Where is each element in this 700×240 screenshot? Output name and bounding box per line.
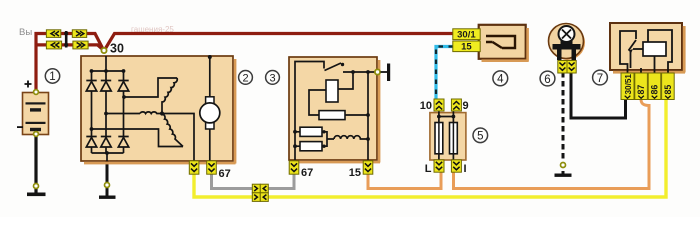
junction dots regulator	[293, 63, 370, 148]
resistor upper	[319, 111, 345, 120]
resistor left B	[300, 142, 322, 151]
WIRES-LAYER	[36, 34, 666, 198]
wire red second parallel run	[38, 45, 105, 51]
ignition switch 4	[453, 25, 529, 62]
svg-text:9: 9	[463, 100, 469, 112]
svg-text:86: 86	[650, 85, 660, 95]
node circled 1	[45, 69, 59, 83]
connector block near battery	[46, 30, 88, 49]
wire coil top feed	[648, 30, 672, 73]
battery 1	[17, 81, 49, 137]
relay coil	[643, 42, 666, 56]
relay coil regulator	[326, 80, 338, 102]
connector regulator terminal 15	[363, 161, 373, 174]
wire blue ignition15-to-fuse10	[436, 47, 453, 101]
wire gray generator67-to-regulator67	[212, 171, 295, 189]
svg-text:L: L	[425, 163, 432, 175]
connector fuse bottom L	[434, 160, 444, 172]
svg-text:67: 67	[219, 168, 231, 180]
svg-text:3: 3	[269, 73, 275, 85]
svg-text:гашения-25: гашения-25	[131, 25, 174, 34]
wire orange regulator15-to-fuseL	[368, 168, 441, 189]
node regulator external terminal	[375, 69, 380, 74]
contact lever	[325, 63, 342, 71]
svg-text:15: 15	[461, 42, 472, 53]
svg-text:4: 4	[497, 74, 504, 86]
ground battery	[27, 193, 46, 197]
node circled 6	[540, 71, 555, 86]
GROUND-SYMBOLS	[27, 163, 572, 199]
wire black battery ground	[34, 133, 37, 193]
connector fuse top 10	[434, 99, 444, 111]
wire rotor feed	[209, 57, 211, 162]
svg-text:15: 15	[349, 167, 361, 179]
wire star-to-terminal	[162, 114, 194, 162]
connector pair on gray and yellow wires	[252, 184, 268, 201]
wire bottom bus	[92, 152, 124, 154]
wire riser terminal 15	[367, 72, 369, 160]
resistor left A	[300, 127, 322, 136]
wire fuse bus	[439, 111, 454, 123]
wire relay left path	[620, 31, 641, 73]
wire coil bottom feed	[654, 56, 656, 73]
wire phase tap middle	[106, 113, 140, 115]
stator coil upper	[162, 78, 177, 113]
wire fixed contact line	[343, 71, 376, 73]
connector strip relay	[621, 73, 674, 100]
connector generator terminal plus	[189, 161, 199, 174]
wire top bus	[92, 70, 124, 72]
ground generator	[99, 196, 116, 199]
wire lever pivot to bottom	[630, 52, 632, 68]
fuse block 5	[420, 99, 469, 175]
ground lamp	[555, 174, 572, 177]
diode bottom row	[92, 97, 124, 153]
charge control relay 7	[610, 23, 686, 100]
connector chevrons relay strip	[625, 96, 671, 99]
wire red node30-to-ignition	[105, 34, 455, 51]
connector fuse bottom I	[451, 160, 461, 172]
wire black generator ground	[106, 161, 109, 196]
svg-text:87: 87	[636, 85, 646, 95]
fuse F1	[435, 123, 443, 154]
node circled 7	[593, 70, 608, 85]
wire black-white lamp-to-ground	[562, 72, 565, 174]
inductor coil	[334, 136, 368, 139]
generator 2	[81, 55, 236, 164]
wire phase tap lower	[92, 129, 184, 147]
fuse wires	[439, 123, 454, 161]
node circled 2	[239, 71, 253, 85]
relay armature lever	[629, 40, 637, 51]
stator coil middle	[140, 112, 162, 114]
warning lamp 6	[549, 24, 586, 74]
label terminal 15	[453, 41, 480, 53]
wire phase tap upper	[124, 78, 178, 97]
wire red battery-to-bus	[36, 34, 104, 93]
node circled 4	[493, 71, 508, 86]
junction dots generator	[90, 55, 212, 155]
connector lamp pins	[558, 61, 567, 74]
wire coil arrow	[633, 48, 643, 50]
wire resistor right to riser	[345, 114, 368, 116]
wire orange fuseI-to-relay87	[454, 99, 650, 189]
svg-text:7: 7	[597, 73, 603, 85]
svg-text:5: 5	[477, 131, 483, 143]
svg-text:Вы: Вы	[19, 27, 32, 38]
svg-text:2: 2	[242, 73, 248, 85]
wire contact stub	[295, 62, 324, 161]
wire coil bottom loop	[309, 90, 326, 115]
voltage regulator 3	[289, 57, 390, 163]
connector regulator terminal 67	[289, 161, 299, 174]
node circled 5	[473, 128, 488, 143]
svg-text:6: 6	[544, 74, 550, 86]
svg-text:I: I	[464, 163, 467, 175]
svg-text:1: 1	[49, 71, 55, 83]
node circled 3	[266, 71, 280, 85]
fuse F2	[450, 123, 458, 154]
svg-text:30: 30	[110, 42, 124, 56]
diode top row	[92, 71, 124, 129]
rotor brushes and circle	[206, 97, 214, 104]
connector generator terminal 67	[207, 161, 217, 174]
connector fuse top 9	[451, 99, 461, 111]
bulb	[559, 26, 575, 42]
stator coil lower	[162, 114, 183, 147]
wire stacked resistors ends	[295, 132, 334, 146]
wire yellow generator-to-relay85 bottom run	[194, 100, 666, 197]
svg-text:10: 10	[420, 100, 432, 112]
wire riser to coil	[338, 72, 353, 89]
node 30 terminal circle	[101, 48, 106, 53]
label terminal 30/1	[453, 29, 480, 41]
svg-text:67: 67	[301, 167, 313, 179]
lamp holder	[553, 38, 581, 60]
svg-text:30/1: 30/1	[457, 30, 476, 41]
switch contact glyph	[486, 36, 515, 48]
svg-text:30/51: 30/51	[624, 74, 633, 95]
svg-text:85: 85	[663, 85, 673, 95]
wire black lamp-to-relay30/51	[571, 72, 626, 118]
